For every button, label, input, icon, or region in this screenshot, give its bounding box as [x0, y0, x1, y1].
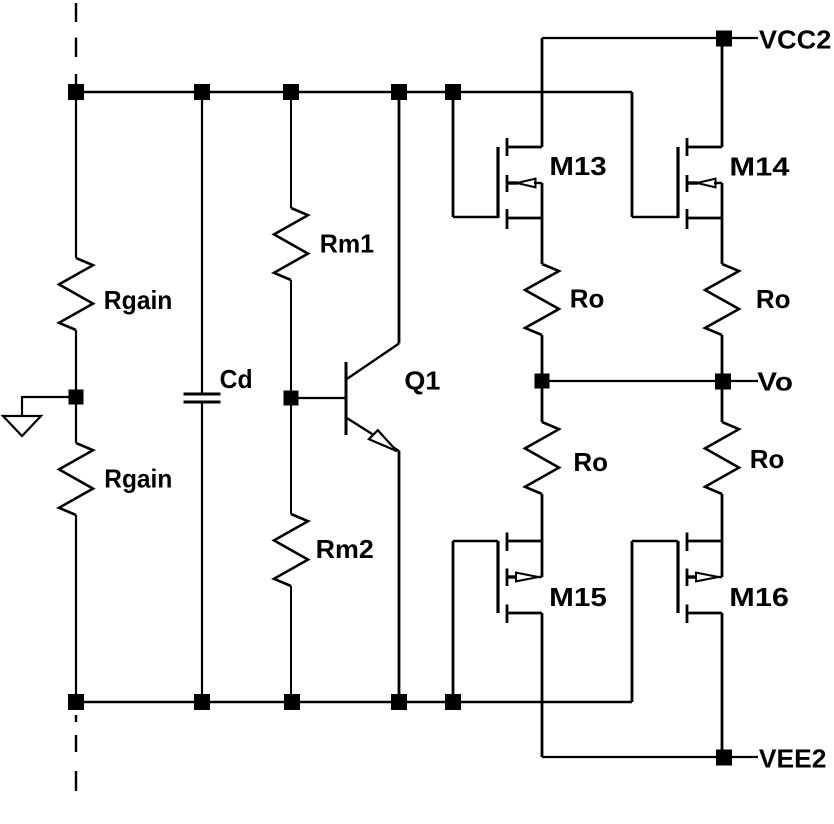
wire Q1 emitter [398, 451, 401, 702]
wire M13 drain to VCC2 [541, 38, 544, 147]
svg-text:VCC2: VCC2 [759, 24, 832, 54]
wire VCC2 rail [542, 37, 758, 39]
wire M14 drain to VCC2 [721, 38, 724, 147]
node left mid junction [69, 390, 84, 405]
svg-text:M14: M14 [729, 151, 790, 181]
node top bus 5 [445, 84, 461, 100]
wire ground stub [22, 396, 76, 398]
node bottom bus 3 [284, 694, 300, 710]
wire top bus [76, 91, 632, 93]
svg-text:Rgain: Rgain [104, 464, 172, 494]
wire M13 source column [541, 183, 544, 264]
resistor Ro (top left) [525, 264, 559, 335]
wire Cd column lower [201, 402, 203, 702]
wire M14 gate feed [632, 92, 678, 217]
resistor Rm2 [274, 514, 308, 586]
resistor Ro (bottom left) [525, 422, 559, 494]
node bottom bus 4 [391, 694, 407, 710]
wire M13 gate feed [453, 92, 498, 217]
transistor M14 [678, 138, 790, 229]
wire bottom bus [76, 701, 632, 703]
ground [3, 416, 41, 436]
node VEE2 [716, 750, 732, 766]
node bottom bus 1 [68, 694, 84, 710]
dashed axis line top [75, 3, 77, 88]
wire M15 gate feed [453, 541, 498, 702]
node top bus 4 [391, 84, 407, 100]
resistor Rm1 [274, 208, 308, 280]
transistor M13 [498, 138, 607, 229]
svg-text:Ro: Ro [750, 444, 785, 474]
node VCC2 [716, 31, 732, 47]
svg-text:Rm1: Rm1 [320, 229, 374, 259]
capacitor Cd [184, 364, 253, 402]
resistor Ro (bottom right) [705, 422, 739, 494]
wire Ro to Vo left [541, 335, 544, 422]
svg-text:Rgain: Rgain [104, 285, 173, 315]
svg-text:Cd: Cd [220, 364, 253, 394]
wire left column upper [75, 92, 77, 258]
node top bus 2 [194, 84, 210, 100]
wire Q1 collector [398, 92, 401, 344]
node top bus 1 [68, 84, 84, 100]
node bottom bus 5 [445, 694, 461, 710]
svg-text:Q1: Q1 [404, 366, 440, 396]
wire VEE2 rail [542, 756, 758, 758]
svg-text:Ro: Ro [570, 283, 605, 313]
node bottom bus 2 [194, 694, 210, 710]
wire Ro to M16 drain [721, 494, 724, 577]
resistor Ro (top right) [705, 264, 739, 335]
node top bus 3 [283, 84, 299, 100]
wire Rm column lower [290, 586, 292, 702]
node Vo left junction [535, 374, 550, 389]
wire Ro to Vo right [721, 335, 724, 422]
svg-text:Ro: Ro [573, 447, 608, 477]
wire Rm column top [290, 92, 292, 208]
wire left column lower [75, 515, 77, 702]
svg-text:Rm2: Rm2 [316, 534, 374, 564]
transistor Q1 [346, 344, 440, 452]
wire Q1 base [291, 397, 345, 399]
wire M16 source to VEE2 [721, 613, 724, 757]
wire Cd column upper [201, 92, 203, 394]
svg-text:Ro: Ro [756, 284, 791, 314]
node base junction [284, 391, 299, 406]
dashed axis line bottom [75, 715, 77, 791]
svg-text:M16: M16 [729, 582, 789, 612]
wire M15 source to VEE2 [541, 613, 544, 757]
wire left column middle [75, 330, 77, 443]
wire M16 gate feed [632, 541, 678, 702]
wire Ro to M15 drain [541, 494, 544, 577]
resistor Rgain (lower) [59, 443, 93, 515]
wire Vo rail [542, 380, 758, 382]
resistor Rgain (upper) [59, 258, 93, 330]
node Vo right junction [715, 374, 731, 390]
transistor M16 [678, 533, 789, 624]
transistor M15 [498, 533, 607, 624]
wire Rm column middle [290, 280, 292, 514]
svg-text:M15: M15 [549, 582, 607, 612]
svg-text:M13: M13 [549, 151, 606, 181]
svg-text:VEE2: VEE2 [759, 743, 827, 773]
svg-text:Vo: Vo [757, 367, 793, 397]
wire M14 source column [721, 183, 724, 264]
